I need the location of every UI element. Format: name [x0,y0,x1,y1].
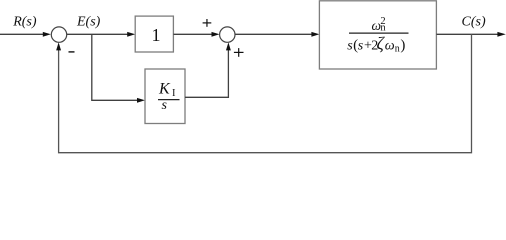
wire: plant output to C(s) arrow [436,32,505,37]
wire: block 1 to summing junction 2 [173,32,219,37]
svg-text:): ) [400,38,405,54]
minus sign at summing junction 1 [69,51,75,53]
wire: input line into summing junction 1 [0,32,51,37]
wire: integrator output up into summing junction 2 [185,42,231,97]
svg-text:ω: ω [385,39,395,54]
wire: summing junction 1 to block 1 [67,32,135,37]
svg-text:n: n [395,44,400,55]
svg-text:C(s): C(s) [462,14,486,29]
block gain 1 [135,16,173,52]
svg-text:s: s [162,98,168,113]
block integrator K_I / s [145,69,185,124]
svg-text:1: 1 [152,25,161,45]
svg-text:E(s): E(s) [76,15,101,30]
svg-text:I: I [172,88,176,99]
svg-text:n: n [380,23,386,34]
plus sign (upper left) at summing junction 2 [203,19,212,27]
summing junction 2 [220,27,235,42]
summing junction 1 [51,27,66,42]
svg-text:R(s): R(s) [12,15,37,30]
block plant wn^2 / ( s ( s + 2 zeta wn ) ) [319,1,436,69]
wire: summing junction 2 to plant block [235,32,319,37]
plus sign (lower right) at summing junction 2 [234,48,244,57]
wire: branch from E(s) line down into integrator block [92,34,145,102]
svg-text:K: K [158,81,171,98]
wire: feedback from output branch down, across, and up into summing junction 1 [56,34,471,152]
svg-text:s: s [358,39,364,54]
